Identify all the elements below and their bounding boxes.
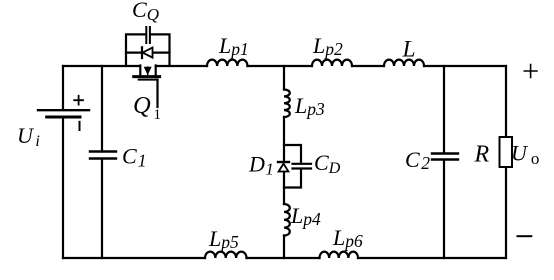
wire top rail left segment: [63, 65, 140, 67]
wire top rail right segments: [156, 65, 506, 67]
inductor Lp1: [207, 60, 247, 66]
svg-text:1: 1: [154, 107, 162, 123]
capacitor CQ: [146, 27, 150, 43]
wire middle branch vertical: [283, 66, 285, 258]
capacitor C1: [90, 152, 116, 159]
diode (body diode of Q1): [126, 47, 170, 58]
wire C2 branch vertical: [443, 66, 445, 258]
battery Ui: [38, 96, 89, 130]
wire left vertical (source branch): [62, 66, 64, 258]
diode D1: [278, 162, 289, 172]
inductor Lp2: [312, 60, 352, 66]
minus sign output: [518, 235, 532, 237]
inductor Lp3: [284, 90, 290, 118]
inductor Lp6: [320, 252, 358, 258]
plus sign output: [524, 65, 537, 78]
svg-text:Q: Q: [133, 92, 151, 119]
wire right vertical (load branch): [505, 66, 507, 258]
wire bottom rail: [63, 257, 506, 259]
capacitor CD branch: [284, 145, 311, 188]
capacitor C2: [432, 154, 458, 160]
transistor Q1 (MOSFET): [134, 66, 160, 108]
snubber box wires: [126, 34, 170, 65]
inductor Lp4: [284, 204, 290, 236]
svg-text:L: L: [402, 37, 416, 63]
wire C1 branch vertical: [101, 66, 103, 258]
resistor R: [500, 137, 513, 167]
inductor L: [384, 60, 424, 66]
svg-text:R: R: [474, 142, 490, 168]
inductor Lp5: [205, 252, 247, 258]
